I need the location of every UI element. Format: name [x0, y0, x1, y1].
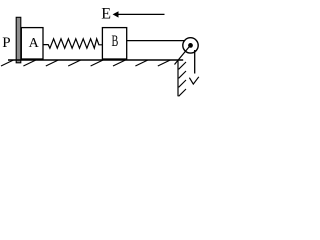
block A — [21, 28, 43, 59]
rope horizontal — [127, 40, 186, 42]
table edge hatches — [179, 62, 186, 96]
ground hatches — [1, 60, 170, 66]
rope vertical — [194, 50, 196, 74]
ground line — [8, 59, 183, 61]
block B — [102, 28, 126, 59]
pulley — [183, 38, 198, 53]
arrowhead down — [189, 77, 198, 84]
table edge vertical — [177, 60, 179, 96]
arrow E (pointing left) — [118, 13, 165, 15]
svg-text:P: P — [2, 35, 10, 51]
pulley strut — [175, 47, 190, 65]
svg-text:B: B — [112, 33, 119, 50]
svg-text:A: A — [29, 36, 40, 51]
svg-text:E: E — [101, 6, 111, 23]
spring — [43, 39, 102, 48]
wall post P — [16, 17, 21, 63]
